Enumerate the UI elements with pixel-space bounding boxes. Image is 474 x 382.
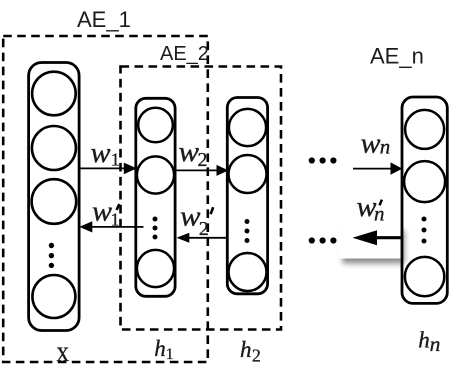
label h1 <box>154 336 173 363</box>
neuron circle h1-3 <box>137 250 174 287</box>
layer capsule hn <box>402 97 447 303</box>
svg-text:1: 1 <box>166 346 174 363</box>
svg-text:2: 2 <box>199 218 209 240</box>
label AE_n <box>370 44 424 69</box>
label x <box>57 335 70 368</box>
layer capsule h1 <box>136 98 175 296</box>
label wn <box>361 129 391 160</box>
neuron circle h2-2 <box>229 155 267 193</box>
svg-text:AE_1: AE_1 <box>77 7 131 32</box>
svg-text:h: h <box>154 336 166 361</box>
neuron circle hn-1 <box>405 110 444 149</box>
svg-text:2: 2 <box>252 346 261 366</box>
label w1 <box>91 138 120 170</box>
svg-text:1: 1 <box>111 209 120 229</box>
arrow w2 <box>176 165 228 176</box>
svg-text:w: w <box>91 138 111 169</box>
layer capsule x <box>29 63 80 331</box>
label h2 <box>240 337 261 366</box>
svg-text:h: h <box>240 337 252 362</box>
vertical ellipsis hn <box>422 217 427 244</box>
layer capsule h2 <box>227 98 267 294</box>
vertical ellipsis x <box>49 243 54 268</box>
label w1' <box>92 197 120 230</box>
dashed box AE_1 <box>3 36 208 362</box>
horizontal ellipsis lower <box>309 237 337 243</box>
svg-text:1: 1 <box>111 150 120 170</box>
label AE_2 <box>160 43 209 65</box>
label AE_1 <box>77 7 131 32</box>
arrow w1' <box>79 221 143 232</box>
svg-text:AE_n: AE_n <box>370 44 424 69</box>
horizontal ellipsis upper <box>309 157 337 163</box>
svg-text:w: w <box>361 129 381 160</box>
arrow wn <box>353 162 402 174</box>
neuron circle x3 <box>32 179 77 224</box>
arrow w1 <box>79 163 137 175</box>
svg-text:h: h <box>418 327 430 352</box>
neuron circle x4 <box>32 275 75 318</box>
svg-text:w: w <box>92 197 112 228</box>
neuron circle x2 <box>32 126 76 170</box>
vertical ellipsis h1 <box>153 217 158 240</box>
label w2' <box>180 202 213 240</box>
neuron circle hn-3 <box>405 257 444 296</box>
white callout box with shadow <box>339 226 401 259</box>
svg-text:n: n <box>380 134 391 158</box>
arrow w2' <box>177 233 229 243</box>
neuron circle h2-3 <box>229 253 267 291</box>
label w2 <box>179 137 208 171</box>
label hn <box>418 327 440 356</box>
neuron circle h1-2 <box>137 156 174 193</box>
dashed box AE_2 <box>121 67 282 330</box>
neuron circle hn-2 <box>404 161 445 202</box>
svg-text:w: w <box>179 137 200 168</box>
label wn' <box>357 192 385 225</box>
svg-text:x: x <box>57 335 70 368</box>
svg-text:n: n <box>430 332 441 356</box>
svg-text:AE_2: AE_2 <box>160 43 209 65</box>
neuron circle h2-1 <box>229 109 266 146</box>
neuron circle h1-1 <box>138 108 173 143</box>
svg-text:2: 2 <box>198 149 208 171</box>
bold arrow wn' <box>353 230 403 245</box>
neuron circle x1 <box>32 72 76 116</box>
vertical ellipsis h2 <box>245 219 250 243</box>
svg-text:w: w <box>180 202 201 233</box>
